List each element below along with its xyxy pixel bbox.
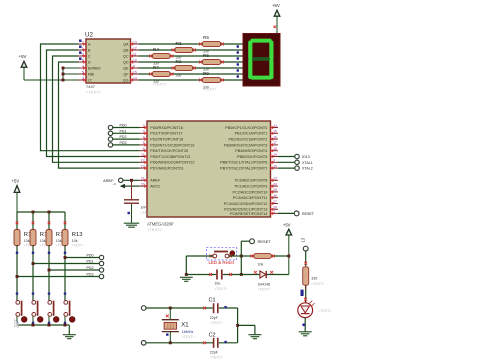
ground below LED [299,332,312,336]
svg-text:RESET: RESET [258,239,272,244]
svg-text:<TEXT>: <TEXT> [318,309,331,313]
svg-text:PD1: PD1 [120,129,127,133]
svg-text:PC4/ADC4/SDA/PCINT12: PC4/ADC4/SDA/PCINT12 [224,202,268,206]
wire LED to ground [302,318,305,332]
svg-text:2: 2 [82,52,84,56]
resistor R9 330 [199,71,224,89]
power +5V terminal for 7447 LT/RBI/BI [19,54,27,80]
wire R11 to button 2 [32,246,34,301]
wire R12 to button 3 [48,246,50,301]
svg-text:16MHz: 16MHz [182,330,194,334]
svg-text:+5V: +5V [19,54,27,59]
svg-text:20: 20 [141,182,145,186]
resistor R15 330 vertical [303,267,325,286]
svg-text:XTAL1: XTAL1 [302,161,313,165]
svg-text:QC: QC [123,54,129,58]
svg-text:IO13: IO13 [302,155,310,159]
svg-text:RBI: RBI [88,72,94,76]
svg-text:PB1/OC1A/PCINT1: PB1/OC1A/PCINT1 [235,132,268,136]
svg-text:C1: C1 [209,297,216,303]
svg-text:16: 16 [273,135,277,139]
svg-text:1: 1 [82,46,84,50]
svg-text:PB7/TOSC2/XTAL2/PCINT7: PB7/TOSC2/XTAL2/PCINT7 [220,166,267,170]
wire 7447 output row y=44 to display [139,43,244,45]
node RESET terminal at ATmega PC6 [278,211,315,216]
svg-text:11: 11 [133,52,137,56]
svg-text:PC2/ADC2/PCINT10: PC2/ADC2/PCINT10 [232,190,267,194]
value label <TEXT> under R9 [203,87,218,91]
svg-text:PD3/INT1/OC2B/PCINT19: PD3/INT1/OC2B/PCINT19 [150,143,194,147]
svg-text:PB6/TOSC1/XTAL1/PCINT6: PB6/TOSC1/XTAL1/PCINT6 [220,161,267,165]
node PD0 terminal at ATmega [108,124,139,130]
svg-text:5: 5 [82,70,84,74]
svg-text:R13: R13 [72,232,83,238]
svg-text:+5V: +5V [272,3,280,8]
svg-text:R5: R5 [203,35,209,40]
svg-text:XTAL2: XTAL2 [302,167,313,171]
node 13 terminal above LED resistor [301,237,309,266]
IC U2 7447 BCD-to-7seg decoder [79,32,139,95]
svg-text:18: 18 [273,147,277,151]
svg-text:17: 17 [273,141,277,145]
svg-text:R6: R6 [203,53,209,58]
svg-text:R7: R7 [153,65,159,70]
wire U2.D to ATmega PD7 [59,62,140,168]
capacitor C4 10u [186,270,241,292]
svg-text:PD2: PD2 [120,135,127,139]
svg-text:3: 3 [143,130,145,134]
resistor R2 330 [172,59,196,77]
power +5V terminal for reset circuit [283,222,292,274]
svg-text:QF: QF [123,72,129,76]
svg-text:13: 13 [301,237,306,242]
svg-text:10k: 10k [258,263,264,267]
push button SW2 [32,301,43,326]
svg-text:<TEXT>: <TEXT> [258,288,271,292]
svg-text:D: D [88,60,91,64]
svg-text:+5: +5 [113,182,117,186]
node XTAL2 source terminal [141,341,213,346]
svg-text:QD: QD [123,60,129,64]
wire buttons bottom rail to ground [17,324,69,335]
svg-text:27: 27 [273,200,277,204]
svg-text:22pF: 22pF [210,316,219,320]
svg-text:R4: R4 [153,47,159,52]
svg-text:PD2: PD2 [87,266,94,270]
svg-text:BI/RBO: BI/RBO [88,66,101,70]
svg-text:ATMEGA328P: ATMEGA328P [147,222,174,227]
node XTAL2 terminal [278,166,313,171]
svg-text:7447: 7447 [86,84,96,89]
wire button column to PD3 terminal [16,275,100,278]
svg-text:QB: QB [123,48,129,52]
wire 7447 output row y=74 to display [139,73,244,75]
svg-text:PD0: PD0 [87,254,94,258]
svg-text:<TEXT>: <TEXT> [210,321,223,325]
mouse cursor ghost [15,320,20,328]
svg-text:9: 9 [273,159,275,163]
svg-text:14: 14 [273,124,277,128]
svg-text:PB0/ICP1/CLKO/PCINT0: PB0/ICP1/CLKO/PCINT0 [225,126,267,130]
svg-text:19: 19 [273,153,277,157]
svg-text:AREF: AREF [150,179,161,183]
svg-text:PB2/SS/OC1B/PCINT2: PB2/SS/OC1B/PCINT2 [229,137,268,141]
power +5V terminal for pull-ups [12,178,20,212]
wire 7447 output row y=68 to display [139,67,244,69]
wire reset junction column [240,241,243,276]
svg-text:22pF: 22pF [210,351,219,355]
svg-text:10k: 10k [72,239,78,243]
wire button column to PD1 terminal [32,262,100,265]
svg-text:PD4/T0/XCK/PCINT20: PD4/T0/XCK/PCINT20 [150,149,188,153]
wire U2.A to ATmega PD4 [41,44,140,151]
svg-text:2: 2 [143,124,145,128]
wire 7447 output row y=80 to display [139,79,244,81]
resistor R4 330 [149,47,173,65]
svg-text:10k: 10k [56,239,62,243]
svg-text:5: 5 [143,141,145,145]
wire R10 to button 1 [16,246,18,301]
svg-text:LED & Reset: LED & Reset [209,260,235,265]
svg-text:RESET: RESET [302,212,315,216]
svg-text:PD1/TXD/PCINT17: PD1/TXD/PCINT17 [150,132,182,136]
svg-text:1nF: 1nF [141,206,147,210]
ground below buttons [63,335,76,339]
svg-text:PD5/T1/OC0B/PCINT21: PD5/T1/OC0B/PCINT21 [150,155,190,159]
svg-text:<TEXT>: <TEXT> [147,227,163,232]
svg-text:R9: R9 [203,71,209,76]
svg-text:<TEXT>: <TEXT> [214,287,227,291]
svg-text:QA: QA [123,42,129,46]
wire 7447 output row y=50 to display [139,49,244,51]
svg-text:PD0: PD0 [120,124,127,128]
7-segment digit 0 segments [248,39,273,80]
svg-text:PD6/AIN0/OC0A/PCINT22: PD6/AIN0/OC0A/PCINT22 [150,161,194,165]
svg-text:6: 6 [143,147,145,151]
wire button column to PD2 terminal [48,269,100,272]
node PD3 terminal at ATmega [108,141,139,147]
node XTAL1 source terminal [141,306,212,311]
svg-text:23: 23 [273,177,277,181]
svg-text:12: 12 [141,159,145,163]
svg-text:10: 10 [133,58,137,62]
7-segment display body [243,34,280,87]
ground left of 10u cap [180,277,193,281]
ground below AREF cap [124,223,140,227]
push button SW3 [48,301,59,326]
svg-text:7: 7 [82,40,84,44]
resistor R13 10k pull-up [62,212,84,247]
svg-text:3: 3 [82,76,84,80]
svg-text:R3: R3 [176,41,182,46]
resistor R6 330 [199,53,224,71]
microcontroller U1 ATMEGA328P body [140,121,279,232]
node PD3 terminal near buttons [87,273,104,279]
svg-text:13: 13 [141,164,145,168]
svg-text:AVCC: AVCC [150,184,160,188]
capacitor C3 on AREF [124,179,153,223]
wire 7447 output row y=56 to display [139,55,244,57]
svg-text:<TEXT>: <TEXT> [203,87,218,91]
svg-text:9: 9 [133,64,135,68]
svg-text:R2: R2 [176,59,182,64]
LED D1 [298,301,332,318]
node PD2 terminal near buttons [87,266,104,272]
push button SW1 [16,301,27,326]
wire button column to PD0 terminal [64,256,100,259]
wire button left to ground column [185,256,241,276]
svg-text:C: C [88,54,91,58]
power +5V terminal above display [272,3,280,34]
node PD1 terminal near buttons [87,260,104,266]
svg-text:PB5/SCK/PCINT5: PB5/SCK/PCINT5 [237,155,267,159]
wire crystal caps to ground [236,308,255,343]
wire R13 to button 4 [64,246,66,301]
svg-text:PC6/RESET/PCINT14: PC6/RESET/PCINT14 [230,212,267,216]
node PD2 terminal at ATmega [108,135,139,141]
svg-text:<TEXT>: <TEXT> [311,282,324,286]
svg-text:U2: U2 [85,32,93,39]
svg-text:PB3/MOSI/OC2A/PCINT3: PB3/MOSI/OC2A/PCINT3 [224,143,267,147]
wire U2.B to ATmega PD5 [47,50,140,157]
svg-text:10k: 10k [24,239,30,243]
svg-text:14: 14 [133,76,137,80]
svg-text:13: 13 [133,40,137,44]
svg-text:10u: 10u [214,282,220,286]
svg-text:PD2/INT0/PCINT18: PD2/INT0/PCINT18 [150,137,183,141]
svg-text:11: 11 [141,153,145,157]
svg-text:C2: C2 [209,332,216,338]
node PD0 terminal near buttons [87,254,104,260]
power +5V arrow into AVCC [113,182,140,188]
svg-text:15: 15 [133,70,137,74]
resistor R14 10k [241,254,290,267]
node pins of 7-seg display (navy squares) [237,45,239,77]
svg-text:<TEXT>: <TEXT> [141,211,154,215]
value label <TEXT> under R7 [153,83,168,87]
svg-text:24: 24 [273,182,277,186]
svg-text:1: 1 [273,210,275,214]
svg-text:+5V: +5V [283,222,291,227]
svg-text:12: 12 [133,46,137,50]
svg-text:PC3/ADC3/PCINT11: PC3/ADC3/PCINT11 [233,196,268,200]
resistor R12 10k pull-up [46,212,68,247]
svg-text:21: 21 [141,177,145,181]
svg-text:4: 4 [82,64,84,68]
node AREF terminal [103,178,139,183]
svg-text:25: 25 [273,188,277,192]
svg-text:<TEXT>: <TEXT> [210,356,223,360]
svg-text:PD1: PD1 [87,260,94,264]
node RESET terminal in reset circuit [241,239,271,244]
crystal X1 16MHz [162,307,195,345]
svg-text:4: 4 [143,135,145,139]
svg-text:PD0/RXD/PCINT16: PD0/RXD/PCINT16 [150,126,183,130]
svg-text:+5V: +5V [12,178,20,183]
push button LED & Reset [207,247,237,265]
svg-text:QE: QE [123,66,129,70]
resistor R7 330 [149,65,173,83]
capacitor C1 22pF [203,297,238,325]
wire +5V to LT/RBI/BI tie [24,67,79,82]
svg-text:6: 6 [82,58,84,62]
svg-text:PB4/MISO/PCINT4: PB4/MISO/PCINT4 [235,149,267,153]
capacitor C2 22pF [203,332,238,359]
wire U2.C to ATmega PD6 [53,56,140,162]
wire 7447 output row y=62 to display [139,61,244,63]
node XTAL1 terminal [278,160,313,165]
svg-text:26: 26 [273,194,277,198]
svg-text:<TEXT>: <TEXT> [72,243,84,247]
svg-text:<TEXT>: <TEXT> [86,90,102,95]
svg-text:<TEXT>: <TEXT> [182,335,195,339]
svg-text:PC1/ADC1/PCINT9: PC1/ADC1/PCINT9 [235,184,268,188]
svg-text:1N4148: 1N4148 [258,283,271,287]
node PD1 terminal at ATmega [108,129,139,135]
wire +5V rail to pull-up resistors [17,211,65,214]
svg-text:10k: 10k [40,239,46,243]
resistor R11 10k pull-up [30,212,52,247]
svg-text:15: 15 [273,130,277,134]
resistor R10 10k pull-up [14,212,36,247]
push button SW4 [64,301,75,326]
svg-text:PD3: PD3 [87,273,94,277]
svg-text:330: 330 [311,277,317,281]
svg-text:QG: QG [123,78,129,82]
svg-text:PD3: PD3 [120,141,127,145]
svg-text:PC0/ADC0/PCINT8: PC0/ADC0/PCINT8 [235,179,268,183]
ground for crystal caps [248,335,261,339]
svg-text:PD7/AIN1/PCINT23: PD7/AIN1/PCINT23 [150,166,183,170]
svg-text:<TEXT>: <TEXT> [153,83,168,87]
svg-text:X1: X1 [181,322,189,328]
resistor R3 330 [172,41,196,59]
resistor R5 330 [199,35,224,53]
node IO13 terminal [278,154,310,159]
svg-text:10: 10 [273,164,277,168]
wire resistor to LED [301,285,307,303]
diode D2 1N4148 [241,271,288,292]
